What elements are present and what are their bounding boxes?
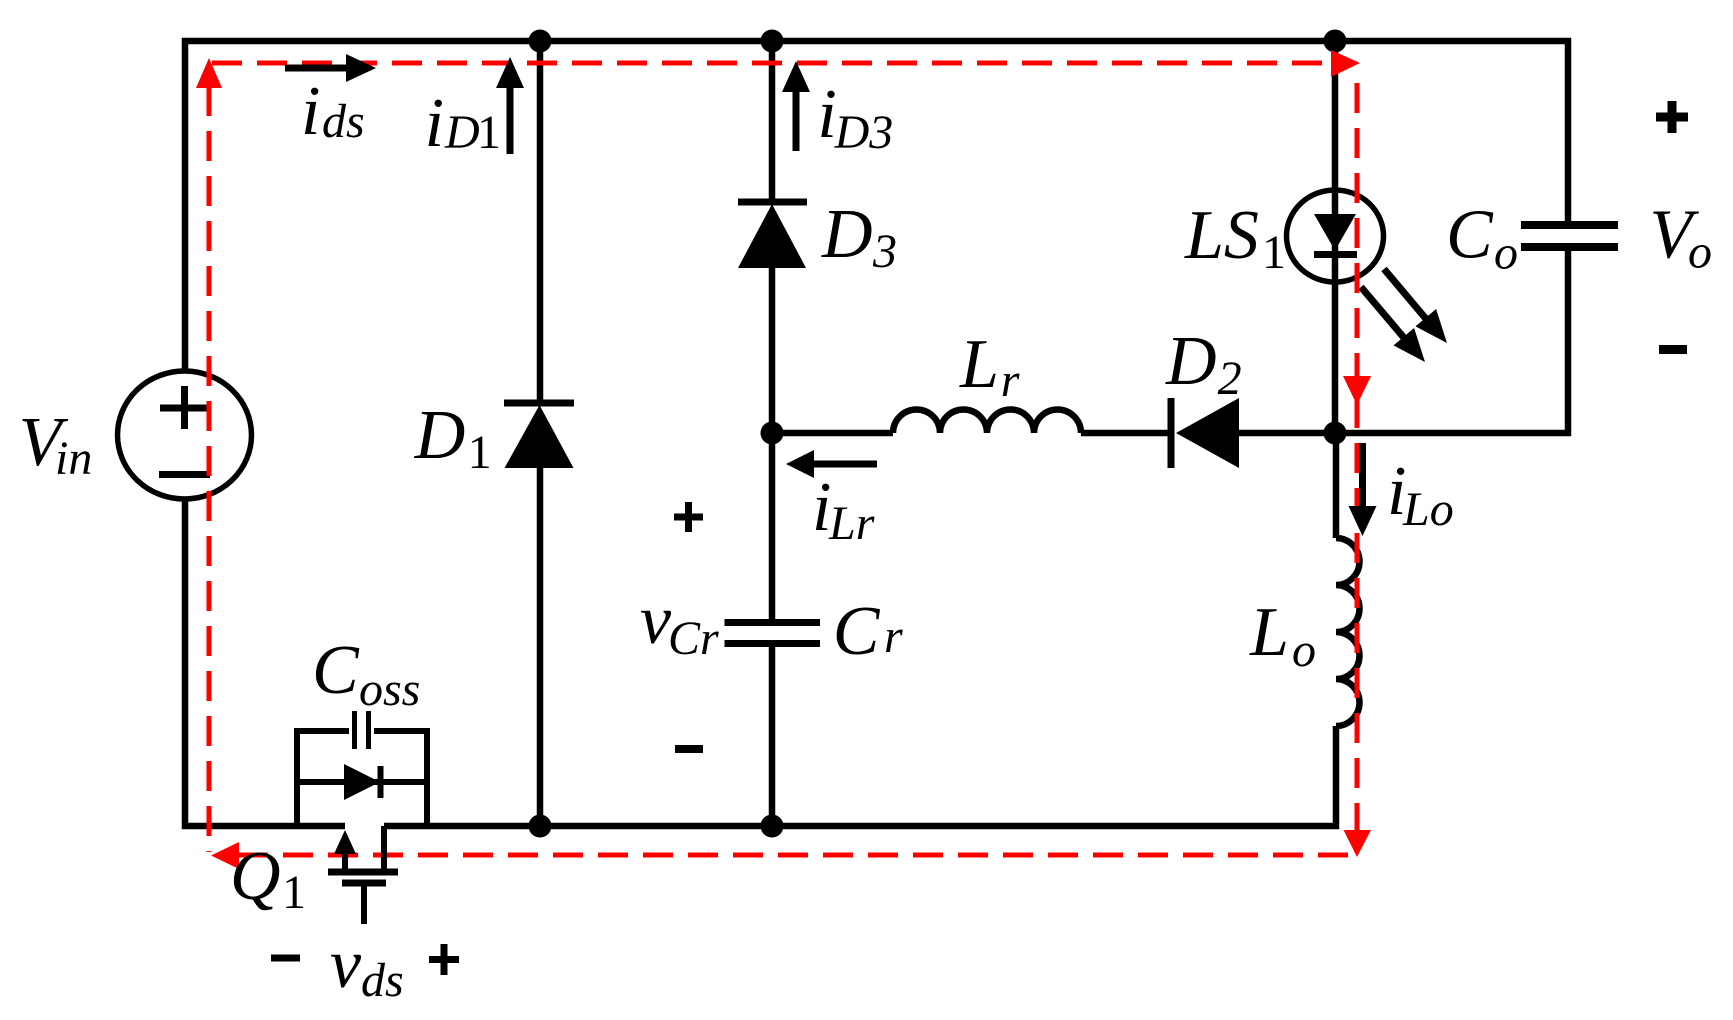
diode D2 xyxy=(1171,398,1239,468)
node dot top D1 xyxy=(529,30,552,53)
node dot bottom D1 xyxy=(529,815,552,838)
svg-text:i: i xyxy=(301,73,320,150)
current arrow i_Lo xyxy=(1349,443,1377,536)
inductor Lo xyxy=(1336,538,1360,726)
wire left vertical below Vin xyxy=(185,499,345,826)
red dashed current loop left vertical xyxy=(207,86,212,852)
red loop left arrowhead xyxy=(211,842,239,869)
red loop right arrowhead xyxy=(1331,50,1360,77)
svg-text:oss: oss xyxy=(359,663,420,716)
transistor Q1 Coss box left vertical xyxy=(294,731,300,829)
wire Lr horizontal from Cr node xyxy=(772,430,893,437)
node dot bottom Cr xyxy=(761,815,784,838)
svg-text:D: D xyxy=(821,196,873,273)
wire D1 branch vertical xyxy=(537,41,544,826)
svg-text:1: 1 xyxy=(477,106,501,159)
capacitor Co plates xyxy=(1521,225,1618,247)
LED LS1 diode triangle xyxy=(1314,214,1356,251)
node dot top LS1 xyxy=(1324,30,1347,53)
svg-text:L: L xyxy=(959,326,999,403)
svg-text:o: o xyxy=(1688,226,1712,279)
red loop up arrowhead xyxy=(196,58,222,88)
label Vo minus sign xyxy=(1659,345,1687,354)
label Vo plus sign xyxy=(1656,101,1688,133)
svg-text:Q: Q xyxy=(230,838,281,915)
svg-text:2: 2 xyxy=(1218,352,1242,405)
svg-text:D3: D3 xyxy=(834,106,894,159)
wire LS1 branch vertical xyxy=(1332,41,1339,433)
wire output node to Co branch xyxy=(1334,249,1568,433)
inductor Lr xyxy=(893,410,1081,434)
svg-text:ds: ds xyxy=(361,954,404,1007)
red loop bottom down arrowhead xyxy=(1344,830,1372,857)
transistor Q1 gate bar xyxy=(342,880,386,887)
current arrow i_Lr xyxy=(786,450,877,478)
transistor Q1 source arrow xyxy=(334,830,356,872)
wire Lo top stub xyxy=(1333,433,1340,538)
transistor Q1 channel bar xyxy=(328,869,398,876)
current arrow i_ds xyxy=(285,54,376,82)
diode D1 xyxy=(504,403,574,468)
svg-text:v: v xyxy=(330,926,362,1003)
svg-text:D: D xyxy=(414,397,466,474)
svg-text:C: C xyxy=(833,593,881,670)
transistor Q1 Coss box right vertical xyxy=(424,731,430,829)
wire D3-Cr branch vertical xyxy=(769,41,776,826)
wire Lr inductor to D2 xyxy=(1081,430,1168,437)
svg-text:L: L xyxy=(1249,594,1289,671)
capacitor Cr plates xyxy=(725,623,821,644)
node dot D2-LS1-Co junction xyxy=(1324,422,1347,445)
LED LS1 emission arrow 1 xyxy=(1384,269,1447,343)
svg-text:C: C xyxy=(312,632,360,709)
red loop mid down arrowhead xyxy=(1343,376,1371,405)
current arrow i_D1 xyxy=(496,57,524,154)
label vCr plus sign xyxy=(674,502,703,532)
transistor Q1 gate lead xyxy=(361,883,367,924)
wire top rail with left and right corner verticals xyxy=(185,41,1568,371)
svg-text:ds: ds xyxy=(322,95,365,148)
svg-text:LS: LS xyxy=(1184,197,1259,274)
LED LS1 emission arrow 2 xyxy=(1361,287,1425,362)
svg-text:r: r xyxy=(884,610,903,663)
svg-text:in: in xyxy=(55,432,92,485)
label vds plus sign xyxy=(429,944,459,975)
transistor Q1 Coss box top with capacitor gap xyxy=(294,728,430,734)
node dot Cr-Lr junction xyxy=(761,422,784,445)
svg-text:D: D xyxy=(1165,323,1217,400)
svg-text:o: o xyxy=(1292,624,1316,677)
voltage source Vin circle xyxy=(118,371,252,499)
capacitor Coss plates xyxy=(355,711,369,749)
label vds minus sign xyxy=(271,955,300,962)
LED LS1 cathode bar xyxy=(1314,251,1357,258)
Vin plus sign xyxy=(160,386,210,429)
red dashed current loop top horizontal xyxy=(212,61,1330,66)
body diode of Q1 xyxy=(297,764,427,800)
node dot top D3 xyxy=(761,30,784,53)
svg-text:r: r xyxy=(1001,354,1020,407)
LED LS1 circle xyxy=(1287,190,1384,282)
svg-text:Lo: Lo xyxy=(1402,483,1454,536)
diode D3 xyxy=(738,202,807,268)
label vCr minus sign xyxy=(675,745,703,753)
red dashed current loop right vertical xyxy=(1355,83,1360,831)
svg-text:o: o xyxy=(1494,227,1518,280)
svg-text:1: 1 xyxy=(1262,226,1286,279)
svg-text:3: 3 xyxy=(872,225,897,278)
svg-text:Cr: Cr xyxy=(668,612,719,665)
svg-text:i: i xyxy=(425,85,444,162)
transistor Q1 drain stub xyxy=(381,826,387,872)
wire bottom rail right of Q1 with Lo corner xyxy=(384,726,1336,826)
svg-text:1: 1 xyxy=(282,866,306,919)
svg-text:1: 1 xyxy=(468,426,492,479)
svg-text:Lr: Lr xyxy=(828,497,875,550)
Vin minus sign xyxy=(159,471,210,478)
svg-text:C: C xyxy=(1446,197,1494,274)
svg-text:D: D xyxy=(444,106,480,159)
red dashed current loop bottom horizontal xyxy=(238,853,1350,858)
current arrow i_D3 xyxy=(782,61,810,151)
wire D2 to output node xyxy=(1239,430,1334,437)
